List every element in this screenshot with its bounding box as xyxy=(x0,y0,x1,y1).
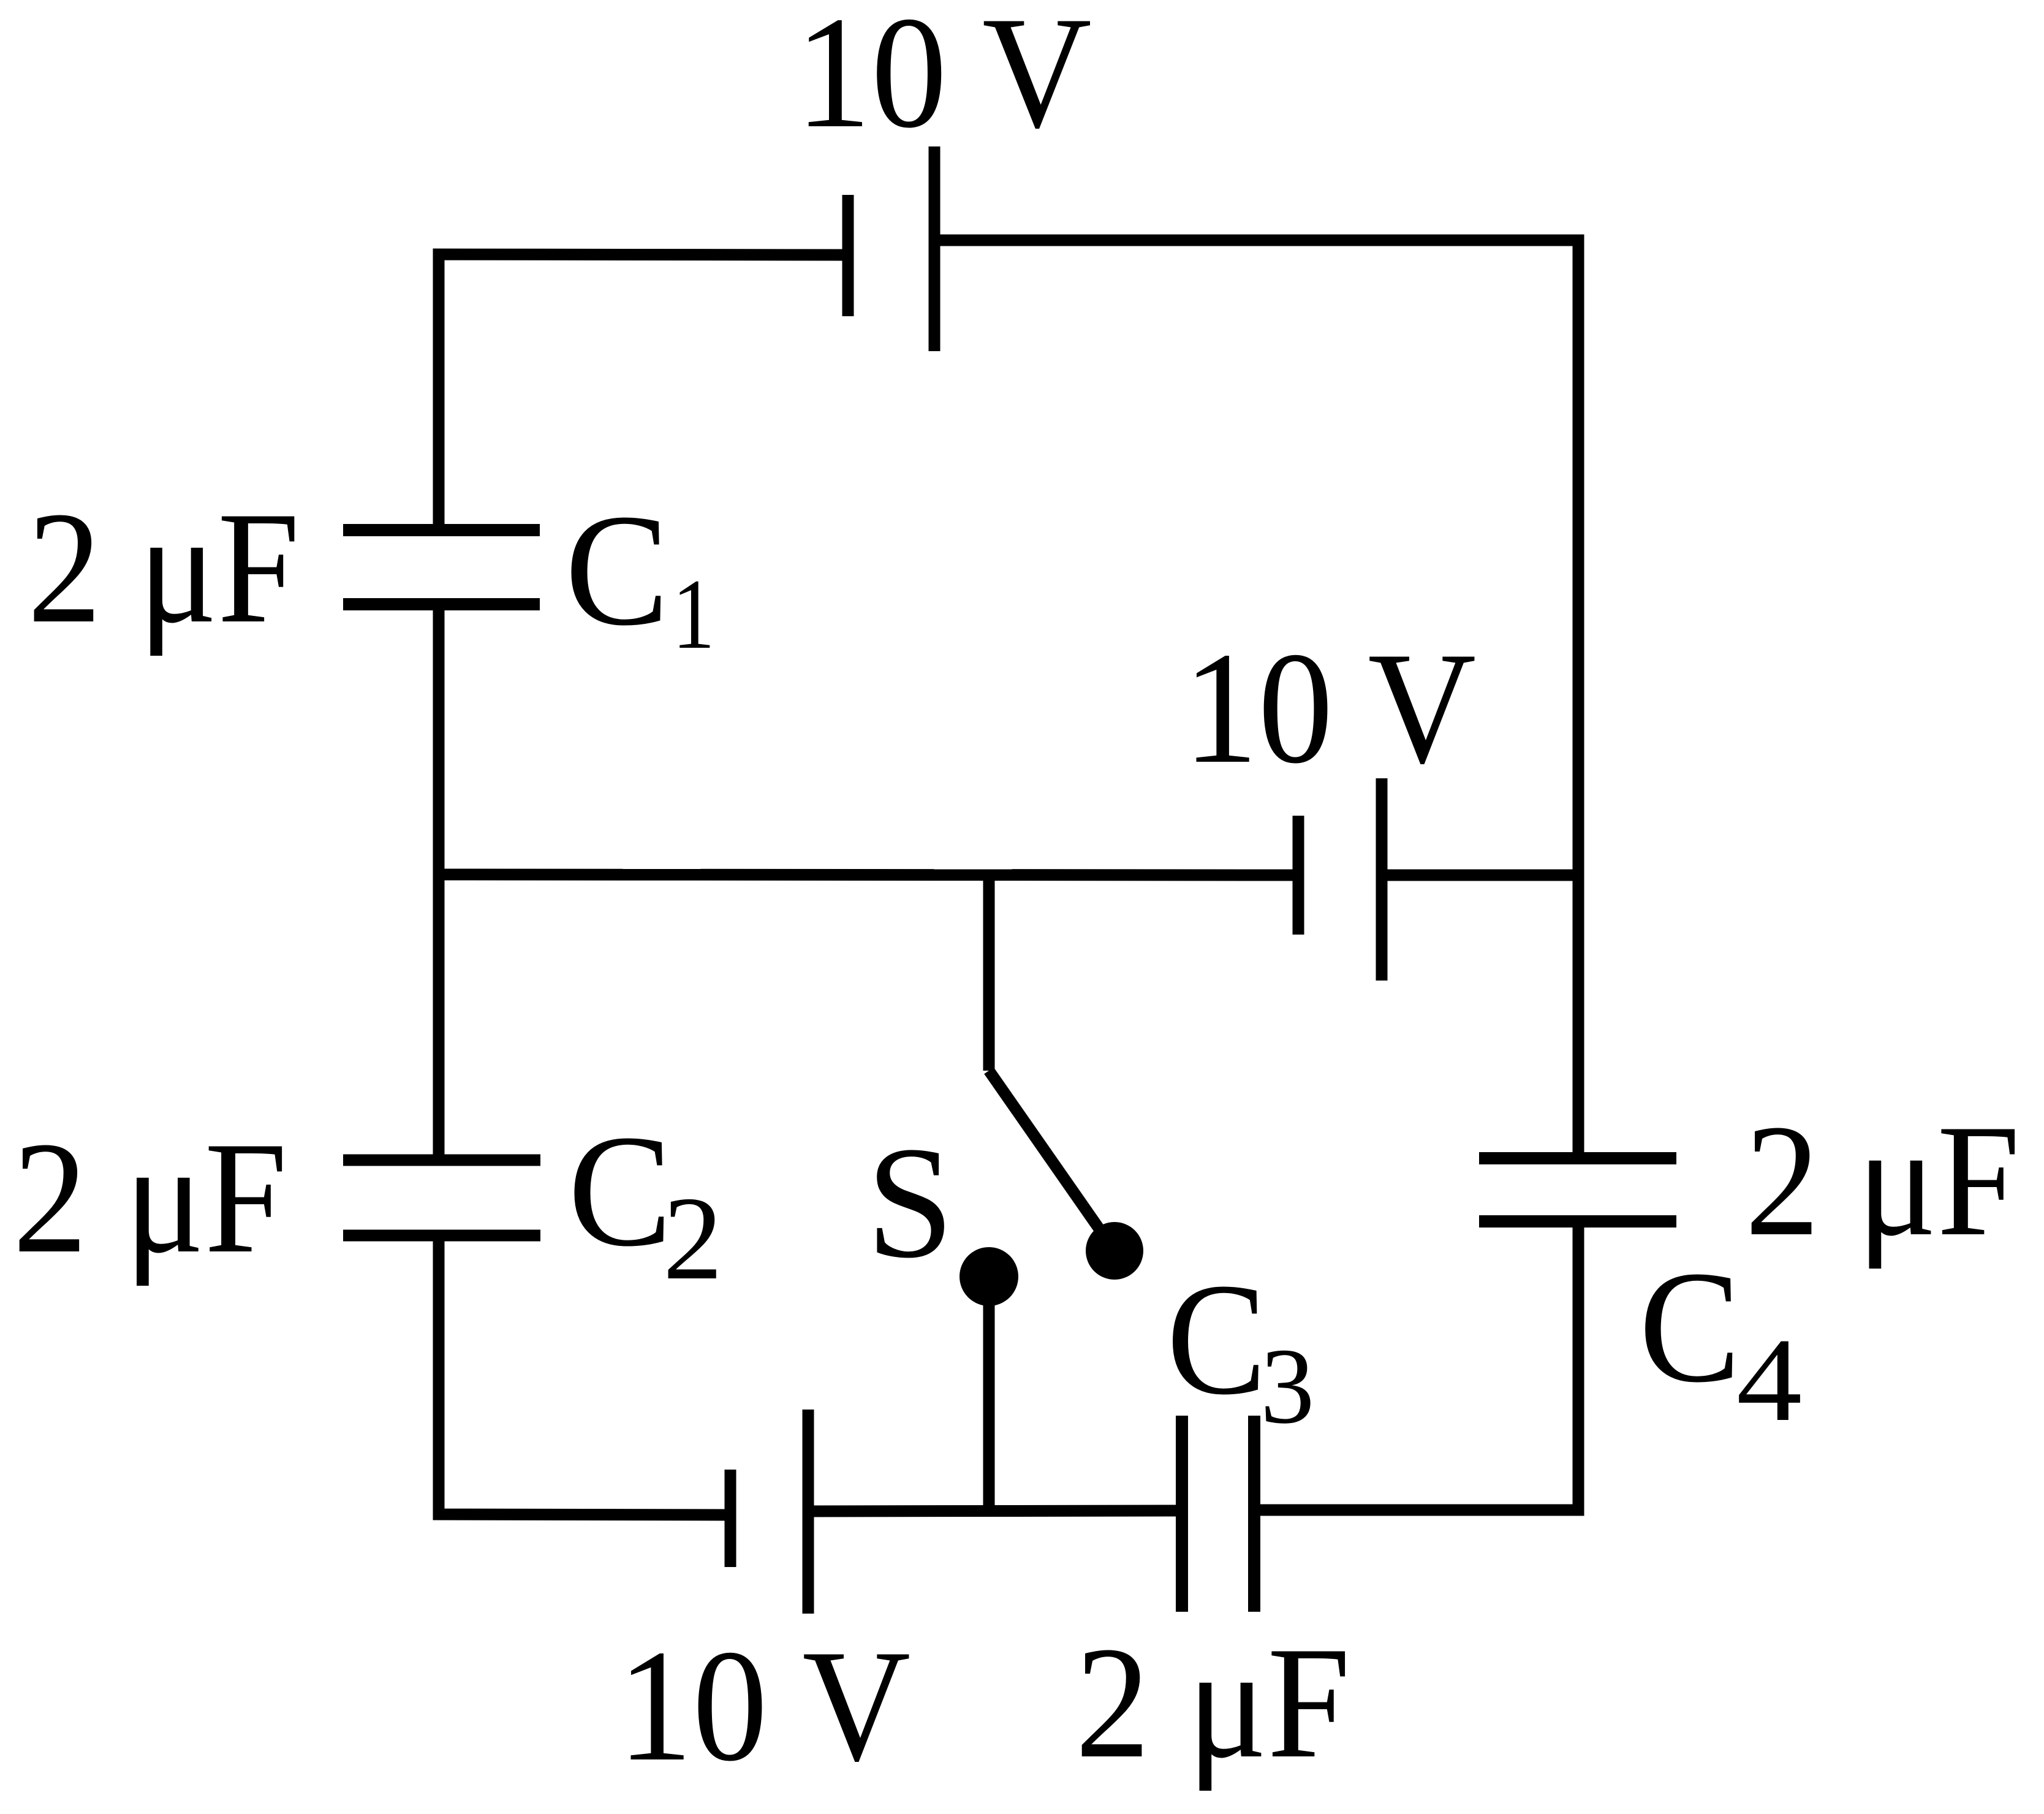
svg-text:2 μF: 2 μF xyxy=(13,1109,287,1286)
svg-text:2 μF: 2 μF xyxy=(28,479,300,656)
switch S: fixed contact dot xyxy=(960,1247,1018,1306)
capacitor C3: right plate xyxy=(1248,1416,1260,1612)
switch S: lower lead to bottom wire xyxy=(983,1277,995,1511)
battery B1 (top 10 V): negative short plate xyxy=(842,195,854,316)
label: 10 V (top battery value) xyxy=(795,0,1092,162)
svg-text:2: 2 xyxy=(663,1172,723,1305)
svg-text:10 V: 10 V xyxy=(795,0,1092,162)
label: 2 uF (C3 value) xyxy=(1075,1614,1350,1791)
svg-text:C: C xyxy=(1167,1250,1266,1427)
wire: left vertical between C1 and C2 xyxy=(433,604,445,1160)
label: 2 uF (C1 value) xyxy=(28,479,300,656)
svg-text:1: 1 xyxy=(672,558,715,669)
label: C2 (designator) xyxy=(568,1102,672,1280)
label: 10 V (bottom battery value) xyxy=(618,1616,910,1794)
svg-text:S: S xyxy=(866,1114,954,1292)
wire: left vertical below C2 + bottom wire to battery B3 xyxy=(439,1235,730,1515)
label: 2 uF (C2 value) xyxy=(13,1109,287,1286)
battery B3 (bottom 10 V): positive long plate xyxy=(803,1410,814,1614)
wire: top wire right segment + right vertical down to C4 xyxy=(934,240,1578,1158)
switch S: stem from middle wire xyxy=(983,875,995,1071)
wire: middle horizontal right segment xyxy=(1382,870,1578,881)
label: 2 uF (C4 value) xyxy=(1745,1091,2020,1269)
wire: middle horizontal left segment xyxy=(439,875,1298,875)
switch S: blade (open diagonal arm) xyxy=(989,1071,1115,1251)
switch S: moving contact dot xyxy=(1086,1222,1143,1280)
label: 10 V (middle battery value) xyxy=(1183,618,1476,796)
svg-text:C: C xyxy=(565,481,669,659)
capacitor C3: left plate xyxy=(1176,1416,1188,1612)
svg-text:10 V: 10 V xyxy=(1183,618,1476,796)
label: C4 (designator) xyxy=(1639,1238,1741,1416)
label: C3 (designator) xyxy=(1167,1250,1266,1427)
svg-text:2 μF: 2 μF xyxy=(1745,1091,2020,1269)
svg-text:C: C xyxy=(1639,1238,1741,1416)
wire: bottom wire right segment + right vertical up to C4 bottom xyxy=(1254,1221,1578,1510)
wire: top-left corner (left vertical upper segment + top wire left segment) xyxy=(439,254,848,531)
battery B1 (top 10 V): positive long plate xyxy=(929,146,941,351)
battery B2 (middle 10 V): positive long plate xyxy=(1376,778,1388,981)
svg-text:C: C xyxy=(568,1102,672,1280)
capacitor C1: bottom plate xyxy=(343,598,540,610)
label: S (switch designator) xyxy=(866,1114,954,1292)
capacitor C1: top plate xyxy=(343,524,540,536)
capacitor C4: bottom plate xyxy=(1479,1215,1676,1228)
capacitor C2: bottom plate xyxy=(343,1230,540,1242)
capacitor C4: top plate xyxy=(1479,1152,1676,1164)
battery B2 (middle 10 V): negative short plate xyxy=(1293,816,1304,935)
capacitor C2: top plate xyxy=(343,1155,540,1166)
svg-text:2 μF: 2 μF xyxy=(1075,1614,1350,1791)
svg-text:4: 4 xyxy=(1736,1314,1802,1446)
battery B3 (bottom 10 V): negative short plate xyxy=(725,1470,736,1567)
svg-text:3: 3 xyxy=(1260,1326,1315,1446)
label: C1 (designator) xyxy=(565,481,669,659)
wire: bottom wire between battery B3 and C3 xyxy=(808,1511,1182,1511)
svg-text:10 V: 10 V xyxy=(618,1616,910,1794)
